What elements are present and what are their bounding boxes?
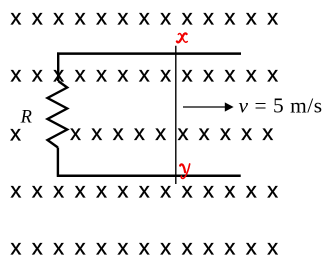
svg-text:x: x (118, 234, 129, 259)
svg-text:x: x (160, 5, 171, 30)
svg-text:x: x (182, 61, 193, 86)
svg-text:x: x (11, 5, 22, 30)
node x label (177, 33, 187, 42)
svg-text:x: x (96, 5, 107, 30)
svg-text:x: x (75, 61, 86, 86)
wire bottom rail (57, 174, 241, 177)
svg-text:x: x (11, 177, 22, 202)
magnetic field marks row 3 (inside loop, left of rod) (10, 120, 166, 146)
svg-text:x: x (139, 5, 150, 30)
svg-text:x: x (91, 120, 102, 145)
svg-text:x: x (203, 5, 214, 30)
svg-text:x: x (220, 120, 231, 145)
svg-text:x: x (11, 234, 22, 259)
svg-text:x: x (118, 177, 129, 202)
velocity arrow (183, 102, 234, 111)
wire top rail (57, 52, 241, 55)
svg-text:x: x (246, 5, 257, 30)
svg-text:x: x (225, 61, 236, 86)
svg-text:x: x (75, 177, 86, 202)
svg-text:x: x (113, 120, 124, 145)
node y label (180, 164, 190, 179)
svg-text:x: x (118, 61, 129, 86)
svg-text:x: x (11, 61, 22, 86)
svg-text:x: x (96, 61, 107, 86)
svg-text:x: x (118, 5, 129, 30)
magnetic field marks row 4 (11, 177, 279, 202)
svg-text:x: x (203, 177, 214, 202)
wire left branch lower segment (57, 148, 59, 177)
svg-text:x: x (96, 177, 107, 202)
svg-text:x: x (225, 5, 236, 30)
svg-text:x: x (139, 234, 150, 259)
svg-text:x: x (241, 120, 252, 145)
magnetic field marks row 2 (11, 61, 279, 86)
svg-text:x: x (160, 177, 171, 202)
svg-text:x: x (225, 234, 236, 259)
svg-text:x: x (32, 177, 43, 202)
svg-text:x: x (160, 61, 171, 86)
svg-text:x: x (96, 234, 107, 259)
resistor R1 (zigzag) (48, 81, 68, 148)
svg-text:x: x (139, 61, 150, 86)
svg-text:x: x (134, 120, 145, 145)
rod xy (moving conductor) (175, 46, 177, 184)
svg-text:x: x (199, 120, 210, 145)
svg-text:x: x (267, 61, 278, 86)
svg-text:x: x (160, 234, 171, 259)
svg-text:x: x (246, 234, 257, 259)
magnetic field marks row 3 (right of rod) (178, 120, 274, 145)
svg-text:x: x (182, 234, 193, 259)
svg-text:x: x (182, 177, 193, 202)
svg-text:x: x (32, 234, 43, 259)
svg-text:x: x (267, 177, 278, 202)
svg-text:x: x (178, 120, 189, 145)
magnetic field marks row 5 (11, 234, 279, 259)
svg-text:x: x (75, 234, 86, 259)
wire left branch upper segment (57, 52, 59, 81)
svg-text:x: x (139, 177, 150, 202)
svg-text:x: x (10, 120, 21, 145)
svg-text:x: x (75, 5, 86, 30)
magnetic field marks row 1 (11, 5, 279, 30)
svg-text:x: x (32, 5, 43, 30)
svg-text:x: x (182, 5, 193, 30)
svg-text:x: x (70, 120, 81, 145)
svg-text:x: x (53, 234, 64, 259)
svg-text:v = 5 m/s: v = 5 m/s (239, 94, 323, 118)
svg-text:x: x (203, 61, 214, 86)
svg-text:x: x (262, 120, 273, 145)
svg-text:x: x (53, 5, 64, 30)
svg-text:x: x (203, 234, 214, 259)
svg-text:x: x (53, 177, 64, 202)
svg-text:x: x (225, 177, 236, 202)
svg-text:x: x (267, 5, 278, 30)
svg-text:x: x (246, 61, 257, 86)
svg-text:x: x (155, 120, 166, 145)
svg-text:x: x (32, 61, 43, 86)
svg-text:x: x (267, 234, 278, 259)
svg-text:x: x (246, 177, 257, 202)
svg-text:R: R (20, 108, 32, 128)
